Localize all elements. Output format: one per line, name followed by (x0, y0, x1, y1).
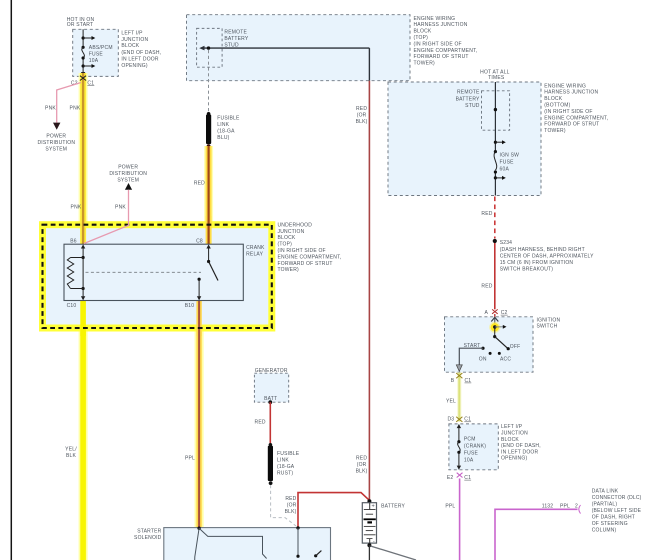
svg-text:CRANK: CRANK (246, 245, 265, 251)
wire: dashed lead from stud to fusible link (208, 50, 210, 114)
fuse IGN SW 60A (494, 150, 519, 174)
label POWER DISTRIBUTION SYSTEM (middle) (109, 165, 147, 184)
label LEFT I/P JUNCTION BLOCK (PCM fuse) (501, 424, 541, 462)
svg-text:REMOTE: REMOTE (224, 29, 247, 35)
svg-text:SYSTEM: SYSTEM (45, 146, 67, 152)
node: feed arrow bottom (82, 64, 96, 68)
svg-text:FORWARD OF STRUT: FORWARD OF STRUT (278, 261, 333, 267)
relay coil (67, 256, 84, 290)
svg-text:DISTRIBUTION: DISTRIBUTION (37, 140, 75, 146)
svg-text:LEFT I/P: LEFT I/P (121, 30, 143, 36)
svg-text:BLOCK: BLOCK (501, 437, 519, 443)
svg-text:OFF: OFF (510, 344, 521, 350)
svg-text:IN LEFT DOOR: IN LEFT DOOR (121, 57, 159, 63)
svg-text:(END OF DASH,: (END OF DASH, (121, 50, 161, 56)
svg-text:ENGINE WIRING: ENGINE WIRING (544, 83, 586, 89)
svg-text:FUSIBLE: FUSIBLE (277, 451, 300, 457)
starter solenoid internals (195, 526, 322, 560)
node: feed arrow upper (494, 140, 506, 144)
svg-text:BLK: BLK (66, 453, 77, 459)
svg-text:TIMES: TIMES (488, 75, 505, 81)
svg-text:OF DASH, RIGHT: OF DASH, RIGHT (592, 514, 635, 520)
remote battery stud dashed box (top) (197, 28, 249, 67)
svg-text:(TOP): (TOP) (278, 242, 293, 248)
svg-text:JUNCTION: JUNCTION (501, 431, 528, 437)
svg-text:A: A (484, 310, 488, 316)
svg-text:HARNESS JUNCTION: HARNESS JUNCTION (414, 22, 468, 28)
connector A C2 (484, 309, 507, 316)
crank relay inner box (64, 244, 265, 300)
label POWER DISTRIBUTION SYSTEM (left) (37, 133, 75, 152)
svg-text:RED: RED (356, 455, 367, 461)
svg-text:PCM: PCM (464, 437, 476, 443)
svg-text:FORWARD OF STRUT: FORWARD OF STRUT (544, 122, 599, 128)
svg-text:(IN RIGHT SIDE OF: (IN RIGHT SIDE OF (278, 248, 326, 254)
svg-text:DISTRIBUTION: DISTRIBUTION (109, 171, 147, 177)
wire: PNK branch to power distribution (left) (45, 83, 81, 130)
svg-text:OPENING): OPENING) (121, 63, 147, 69)
fusible link (18-GA RUST) (268, 443, 300, 485)
svg-text:COLUMN): COLUMN) (592, 527, 617, 533)
svg-text:IGN SW: IGN SW (500, 152, 520, 158)
label ENGINE WIRING HARNESS JUNCTION BLOCK (TOP) (414, 16, 478, 67)
svg-text:10A: 10A (464, 458, 474, 464)
svg-text:C8: C8 (196, 238, 203, 244)
svg-text:BLOCK: BLOCK (278, 235, 296, 241)
svg-text:15 CM (6 IN) FROM IGNITION: 15 CM (6 IN) FROM IGNITION (500, 260, 574, 266)
svg-text:POWER: POWER (46, 133, 66, 139)
connector E2 C1 (447, 473, 471, 481)
splice S234 (493, 239, 594, 273)
relay highlight border (yellow band) (43, 225, 272, 328)
svg-text:FUSIBLE: FUSIBLE (217, 115, 240, 121)
svg-text:RED: RED (481, 283, 492, 289)
svg-text:IN LEFT DOOR: IN LEFT DOOR (501, 449, 539, 455)
svg-text:RELAY: RELAY (246, 252, 263, 258)
svg-text:SWITCH: SWITCH (537, 324, 558, 330)
svg-text:(BELOW LEFT SIDE: (BELOW LEFT SIDE (592, 508, 642, 514)
svg-text:C10: C10 (67, 303, 77, 309)
svg-text:ENGINE COMPARTMENT,: ENGINE COMPARTMENT, (414, 48, 478, 54)
svg-text:FORWARD OF STRUT: FORWARD OF STRUT (414, 54, 469, 60)
svg-text:(PARTIAL): (PARTIAL) (592, 501, 618, 507)
junction block: engine wiring harness (TOP) box (187, 15, 411, 81)
node: feed arrow lower (494, 176, 506, 180)
svg-text:BATTERY: BATTERY (381, 504, 405, 510)
svg-text:ENGINE WIRING: ENGINE WIRING (414, 16, 456, 22)
wire segments crossing relay box border (83, 216, 209, 336)
node: feed arrow top (82, 36, 96, 40)
svg-text:STARTER: STARTER (137, 528, 161, 534)
svg-text:RED: RED (255, 420, 266, 426)
svg-text:ABS/PCM: ABS/PCM (89, 45, 113, 51)
junction block: LEFT I/P (PCM CRANK fuse) (449, 424, 498, 470)
wire: RED dashed to splice S234 (481, 197, 494, 239)
relay highlight border (black dashes) (43, 225, 272, 328)
label PNK for branch wires (71, 205, 127, 211)
svg-text:RED: RED (194, 181, 205, 187)
svg-text:JUNCTION: JUNCTION (278, 229, 305, 235)
svg-text:-: - (373, 539, 375, 545)
svg-text:LEFT I/P: LEFT I/P (501, 424, 523, 430)
underhood junction block highlight box (crank relay) (46, 228, 268, 324)
wire: dashed from rust link to starter (271, 485, 296, 526)
svg-text:REMOTE: REMOTE (457, 90, 480, 96)
svg-text:FUSE: FUSE (89, 52, 104, 58)
svg-text:PNK: PNK (45, 106, 56, 112)
svg-text:UNDERHOOD: UNDERHOOD (278, 222, 313, 228)
svg-text:BLK): BLK) (356, 469, 368, 475)
svg-text:(END OF DASH,: (END OF DASH, (501, 443, 541, 449)
relay switch (86, 260, 219, 281)
pin C10 (67, 289, 86, 310)
svg-text:YEL/: YEL/ (65, 446, 77, 452)
wire: highlighted PPL from B10 to starter solenoid (185, 301, 199, 528)
svg-text:DATA LINK: DATA LINK (592, 488, 619, 494)
label LEFT I/P JUNCTION BLOCK text (121, 30, 161, 69)
wire: PNK branch from power distribution to B6 (84, 183, 132, 244)
svg-text:RED: RED (481, 211, 492, 217)
svg-text:PPL: PPL (185, 455, 195, 461)
svg-text:YEL: YEL (446, 399, 456, 405)
ignition switch box (445, 317, 561, 372)
pin out of PCM fuse box (457, 452, 461, 469)
wire: RED from generator BATT (255, 402, 271, 444)
switch wiper (493, 327, 507, 348)
wire: bus inside bottom junction box (494, 82, 497, 196)
pin B6 (70, 238, 85, 257)
label ENGINE WIRING HARNESS JUNCTION BLOCK (BOTTOM) (544, 83, 608, 134)
remote battery stud dashed box (bottom) (456, 90, 510, 131)
svg-text:SWITCH BREAKOUT): SWITCH BREAKOUT) (500, 267, 554, 273)
svg-text:10A: 10A (89, 58, 99, 64)
svg-text:(OR: (OR (357, 462, 367, 468)
frame border line (10, 0, 12, 560)
wire: bus inside left fuse box (82, 29, 84, 73)
svg-text:FUSE: FUSE (464, 451, 479, 457)
label HOT AT ALL TIMES (480, 70, 510, 81)
pin C8 (196, 238, 211, 261)
svg-text:RED: RED (285, 496, 296, 502)
svg-text:STUD: STUD (465, 103, 480, 109)
fuse PCM (CRANK) 10A (457, 437, 486, 464)
svg-text:LINK: LINK (277, 457, 289, 463)
wire: highlighted RED from fusible link to crank relay C8 (194, 146, 209, 244)
svg-text:B: B (451, 378, 455, 384)
svg-text:CONNECTOR (DLC): CONNECTOR (DLC) (592, 495, 642, 501)
wire: highlighted YEL/BLK from C10 to bottom (65, 301, 83, 560)
wire: from START contact to pin B (456, 348, 483, 371)
svg-text:TOWER): TOWER) (414, 61, 436, 67)
svg-text:OR START: OR START (67, 22, 93, 28)
wire: PPL to data link connector (495, 503, 581, 560)
svg-text:SOLENOID: SOLENOID (134, 535, 162, 541)
svg-text:FUSE: FUSE (500, 160, 515, 166)
label DATA LINK CONNECTOR (DLC) (592, 488, 642, 533)
svg-text:ENGINE COMPARTMENT,: ENGINE COMPARTMENT, (544, 115, 608, 121)
junction block: LEFT I/P (ABS/PCM fuse) (73, 29, 119, 76)
svg-text:1132: 1132 (542, 503, 554, 509)
svg-text:D3: D3 (448, 417, 455, 423)
svg-text:PNK: PNK (71, 205, 82, 211)
wire: RED (OR BLK) battery to starter (285, 493, 370, 528)
svg-text:S234: S234 (500, 240, 512, 246)
svg-text:(18-GA: (18-GA (277, 464, 295, 470)
pin arrow out of fuse box (81, 72, 85, 76)
svg-text:PNK: PNK (115, 205, 126, 211)
switch contacts START OFF ON ACC (464, 343, 521, 362)
svg-text:BLK): BLK) (356, 119, 368, 125)
wire: red entering switch, pin arrow (491, 314, 498, 327)
fuse ABS/PCM 10A (82, 45, 113, 64)
svg-text:PNK: PNK (70, 106, 81, 112)
svg-text:PPL: PPL (445, 504, 455, 510)
svg-text:(OR: (OR (357, 113, 367, 119)
svg-text:RED: RED (356, 106, 367, 112)
connector C2 C1 inline symbol (71, 76, 94, 87)
junction block: engine wiring harness (BOTTOM) box (388, 82, 541, 196)
svg-text:HARNESS JUNCTION: HARNESS JUNCTION (544, 90, 598, 96)
connector B C1 (451, 373, 472, 384)
svg-text:CENTER OF DASH, APPROXIMATELY: CENTER OF DASH, APPROXIMATELY (500, 253, 594, 259)
svg-text:(18-GA: (18-GA (217, 128, 235, 134)
connector D3 C1 (448, 417, 472, 423)
svg-text:(BOTTOM): (BOTTOM) (544, 103, 570, 109)
pin into PCM fuse box (457, 424, 461, 442)
wire: RED (OR BLK) long vertical to battery (356, 81, 370, 502)
starter solenoid box (134, 528, 330, 560)
svg-text:BATTERY: BATTERY (456, 96, 480, 102)
svg-text:ON: ON (479, 356, 487, 362)
svg-text:2: 2 (575, 503, 578, 509)
svg-text:BLOCK: BLOCK (414, 29, 432, 35)
svg-text:RUST): RUST) (277, 470, 293, 476)
svg-text:OF STEERING: OF STEERING (592, 521, 628, 527)
svg-text:BLU): BLU) (217, 135, 229, 141)
svg-text:(IN RIGHT SIDE OF: (IN RIGHT SIDE OF (544, 109, 592, 115)
svg-text:TOWER): TOWER) (544, 128, 566, 134)
svg-text:+: + (372, 504, 375, 510)
svg-text:OPENING): OPENING) (501, 456, 527, 462)
svg-text:TOWER): TOWER) (278, 267, 300, 273)
wire: PPL from PCM fuse to bottom (445, 479, 459, 560)
label UNDERHOOD JUNCTION BLOCK (TOP) (278, 222, 342, 273)
svg-text:E2: E2 (447, 475, 454, 481)
svg-text:B6: B6 (70, 238, 77, 244)
wire: highlighted PNK from C1 to crank relay B6 (79, 73, 88, 244)
svg-text:PPL: PPL (560, 503, 570, 509)
svg-text:JUNCTION: JUNCTION (121, 37, 148, 43)
wire: RED from S234 to ignition switch (481, 243, 494, 309)
svg-text:(TOP): (TOP) (414, 35, 429, 41)
wire: stud bus with left arrow (199, 46, 369, 81)
svg-text:BATTERY: BATTERY (224, 36, 248, 42)
svg-text:LINK: LINK (217, 122, 229, 128)
wire: battery negative leads (367, 543, 416, 560)
generator box (254, 368, 288, 404)
svg-text:(OR: (OR (287, 502, 297, 508)
svg-text:POWER: POWER (118, 165, 138, 171)
svg-text:(IN RIGHT SIDE OF: (IN RIGHT SIDE OF (414, 41, 462, 47)
svg-text:BLK): BLK) (285, 509, 297, 515)
fusible link (18-GA BLU) (206, 112, 240, 148)
svg-text:B10: B10 (185, 303, 195, 309)
battery (362, 499, 405, 544)
svg-text:IGNITION: IGNITION (537, 317, 561, 323)
svg-text:BLOCK: BLOCK (544, 96, 562, 102)
pin B10 (185, 279, 202, 309)
ignition switch common node (489, 322, 506, 333)
svg-text:(DASH HARNESS, BEHIND RIGHT: (DASH HARNESS, BEHIND RIGHT (500, 247, 585, 253)
wire: YEL from ignition switch to PCM fuse (446, 372, 459, 421)
svg-text:ACC: ACC (500, 356, 511, 362)
svg-text:SYSTEM: SYSTEM (117, 178, 139, 184)
svg-text:ENGINE COMPARTMENT,: ENGINE COMPARTMENT, (278, 254, 342, 260)
label HOT IN ON OR START (67, 17, 95, 28)
svg-text:BLOCK: BLOCK (121, 43, 139, 49)
svg-text:60A: 60A (500, 167, 510, 173)
svg-text:(CRANK): (CRANK) (464, 444, 486, 450)
